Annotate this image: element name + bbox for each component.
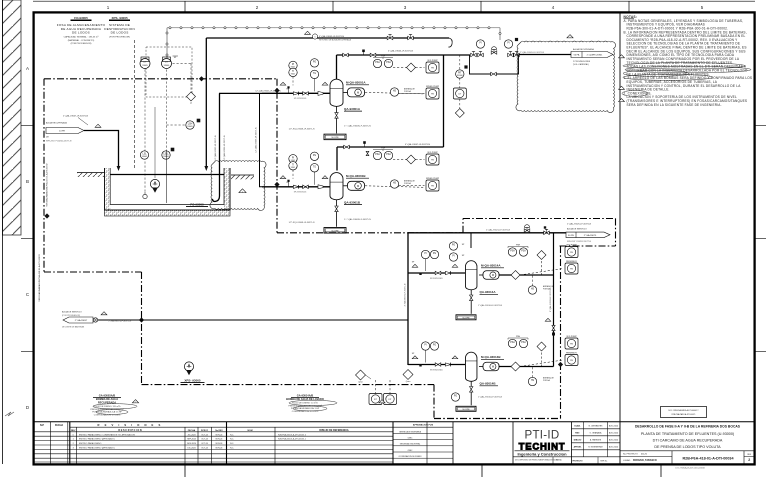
svg-text:ELAB.: ELAB. bbox=[575, 424, 581, 427]
panel box 2 unit B bbox=[426, 180, 439, 191]
service line valves bbox=[524, 229, 530, 232]
black dot junction QA-93014B bbox=[419, 364, 421, 366]
battery limit bottom horizontal bbox=[142, 384, 435, 386]
svg-text:PI: PI bbox=[507, 43, 510, 45]
svg-text:4"-QAL-93006-LF-30371-N: 4"-QAL-93006-LF-30371-N bbox=[388, 50, 413, 53]
cloud around pit right bbox=[210, 161, 266, 211]
instrument dashed line left bbox=[144, 70, 146, 193]
svg-text:Qmin: Qmin bbox=[406, 381, 411, 383]
panel boxes QA-93014B bbox=[565, 338, 578, 349]
svg-text:GERENCIA DE INGENIERIA: GERENCIA DE INGENIERIA bbox=[399, 430, 422, 433]
triangle in cloud bbox=[239, 189, 246, 193]
svg-text:N.C.: N.C. bbox=[230, 439, 234, 441]
slope funnel QA-93014A bbox=[456, 315, 476, 320]
black square junction B bbox=[363, 141, 366, 144]
small valve B bbox=[366, 151, 369, 155]
svg-text:HS: HS bbox=[531, 380, 535, 382]
instrument TI QA-93001A bbox=[289, 68, 297, 76]
lavado connection circle bbox=[93, 318, 97, 322]
svg-text:ARRANQUE: ARRANQUE bbox=[404, 88, 415, 91]
vent triangle QA-93014B bbox=[452, 356, 458, 359]
manifold gate valve 3 bbox=[508, 53, 514, 56]
service line drop bbox=[470, 233, 472, 248]
discharge line QA-93014B bbox=[499, 366, 554, 368]
feed line to QA-93014B bbox=[408, 364, 465, 366]
manifold gate valve 2 bbox=[478, 53, 484, 56]
battery limit right vertical upper bbox=[276, 79, 278, 233]
svg-text:REV.: REV. bbox=[575, 432, 580, 434]
svg-text:PI: PI bbox=[479, 43, 482, 45]
svg-text:COORDINACION DE DISENO: COORDINACION DE DISENO bbox=[398, 455, 422, 458]
svg-text:OCT-24: OCT-24 bbox=[201, 443, 208, 445]
instrument PI QA-93001A bbox=[289, 61, 297, 69]
pump motor QA-93001B bbox=[348, 181, 365, 190]
arranque circle QA-93014B bbox=[528, 377, 536, 385]
svg-text:M-QA-93014B: M-QA-93014B bbox=[481, 355, 501, 359]
vent triangle QA-93001A left bbox=[280, 82, 286, 85]
revision table header row bbox=[70, 426, 393, 428]
svg-text:AGUA RECUPERADA: AGUA RECUPERADA bbox=[46, 121, 67, 124]
notes panel divider bbox=[619, 12, 621, 422]
gate valve feed QA-93014A bbox=[435, 271, 441, 274]
drain line QA-93001A bbox=[336, 106, 338, 133]
svg-text:R. MONSERRAT: R. MONSERRAT bbox=[588, 445, 603, 448]
note marker triangle B bbox=[619, 86, 625, 89]
svg-text:FLUJO DE DISENO: 10 m³/h: FLUJO DE DISENO: 10 m³/h bbox=[292, 402, 318, 405]
revision table frame bbox=[49, 422, 51, 464]
sheet outer edge line bbox=[2, 0, 4, 464]
svg-text:GA-93014A/B: GA-93014A/B bbox=[297, 394, 314, 398]
check valve feed QA-93014B bbox=[445, 363, 450, 366]
manifold gate valve 1 bbox=[471, 53, 477, 56]
instrument LSL left bbox=[140, 151, 148, 159]
vessel QA-93014A bbox=[465, 261, 477, 290]
note highlight oval 5 bbox=[622, 91, 648, 97]
note triangle inlet bbox=[95, 124, 101, 127]
instrument PG QA-93014A bbox=[430, 250, 438, 258]
zone tick right bbox=[755, 125, 767, 127]
black dot junction QA-93014A bbox=[419, 273, 421, 275]
instrument PI right bbox=[504, 40, 512, 48]
svg-text:DE LODOS: DE LODOS bbox=[72, 30, 90, 34]
panel box VFD unit A bbox=[426, 62, 439, 73]
title lower row bbox=[620, 450, 755, 452]
battery junction diamond 2 bbox=[274, 88, 279, 93]
discharge header B bbox=[337, 146, 444, 148]
svg-text:Qmin: Qmin bbox=[358, 382, 363, 384]
battery limit upper horizontal bbox=[44, 78, 277, 80]
return header line bbox=[206, 37, 449, 39]
title text box bbox=[619, 422, 621, 464]
svg-text:PG: PG bbox=[433, 345, 437, 347]
feed line to QA-93001A bbox=[262, 92, 330, 94]
instrument TG QA-93001B bbox=[310, 164, 318, 172]
svg-text:AGUA RECUPERADA: AGUA RECUPERADA bbox=[573, 48, 594, 51]
vessel QA-93001A bbox=[330, 79, 343, 106]
svg-text:14 PE: 14 PE bbox=[59, 131, 65, 133]
note triangle header bbox=[305, 31, 311, 34]
instrument PG QA-93014B bbox=[430, 342, 438, 350]
zone tick left bbox=[21, 125, 34, 127]
svg-text:SLOPE: SLOPE bbox=[331, 137, 339, 139]
svg-text:(MATERIAL : CONCRETO): (MATERIAL : CONCRETO) bbox=[68, 39, 95, 42]
instrument LG QA-93014A bbox=[421, 250, 429, 258]
instrument dashed line right bbox=[166, 70, 168, 151]
svg-text:PG: PG bbox=[454, 396, 458, 398]
svg-text:EMITIDO PARA DISENO (APROBADO): EMITIDO PARA DISENO (APROBADO) bbox=[79, 438, 115, 441]
svg-text:AGO-2024: AGO-2024 bbox=[609, 438, 618, 441]
svg-text:2"-QAL-93025-LF-30371-N: 2"-QAL-93025-LF-30371-N bbox=[567, 223, 592, 226]
svg-text:APROB.: APROB. bbox=[574, 445, 582, 448]
svg-text:PG: PG bbox=[313, 155, 317, 157]
svg-text:SERA DEFINIDA EN LA SIGUIENTE: SERA DEFINIDA EN LA SIGUIENTE FASE DE IN… bbox=[627, 103, 722, 107]
boxed circles bottom bbox=[369, 394, 382, 405]
svg-text:2: 2 bbox=[135, 402, 136, 404]
svg-text:2"-SA-93057-LF-30371-N: 2"-SA-93057-LF-30371-N bbox=[404, 283, 407, 306]
svg-text:PG: PG bbox=[452, 245, 456, 247]
header end hook bbox=[448, 38, 452, 47]
suction header horizontal bbox=[219, 92, 330, 94]
instrument PI left bbox=[476, 40, 484, 48]
svg-text:PURGA: PURGA bbox=[543, 379, 550, 382]
svg-text:VFD PUMP: VFD PUMP bbox=[427, 152, 438, 154]
svg-text:A: A bbox=[26, 66, 29, 71]
svg-text:XPS- 93005: XPS- 93005 bbox=[184, 379, 201, 383]
svg-text:PSH: PSH bbox=[516, 245, 521, 247]
svg-text:OCT-24: OCT-24 bbox=[201, 439, 208, 441]
svg-text:PROYECTO: PROYECTO bbox=[572, 460, 583, 462]
instrument TG QA-93001A bbox=[310, 70, 318, 78]
svg-text:PSA: PSA bbox=[386, 153, 391, 156]
svg-text:R E V I S I O N E S: R E V I S I O N E S bbox=[98, 423, 163, 427]
gate valve feed QA-93014B bbox=[435, 363, 441, 366]
lower discharge collector bbox=[553, 233, 555, 367]
svg-text:HS: HS bbox=[393, 91, 397, 93]
svg-text:2"-SA-93057-LF-30371-N: 2"-SA-93057-LF-30371-N bbox=[109, 320, 132, 323]
svg-text:VER DIAGRAMA R2B-P6A-418-01-A-: VER DIAGRAMA R2B-P6A-418-01-A-DTI-00032 bbox=[46, 163, 49, 207]
VFD dashed link QA-93001B bbox=[365, 186, 424, 188]
ground hatch left of pit bbox=[77, 172, 105, 174]
zone tick top 1 bbox=[184, 1, 186, 12]
svg-text:FECHA: FECHA bbox=[55, 424, 64, 427]
svg-text:N.P: N.P bbox=[40, 424, 44, 427]
battery limit right vertical lower bbox=[560, 246, 562, 419]
instrument dashed links QA-93014A bbox=[520, 269, 563, 276]
svg-text:OCT-24: OCT-24 bbox=[201, 448, 208, 450]
logo box PTI-ID TECHINT bbox=[512, 422, 514, 464]
svg-text:2 PROVEEDORES: 2 PROVEEDORES bbox=[573, 61, 591, 63]
discharge collector riser bbox=[443, 55, 445, 147]
svg-text:M: M bbox=[357, 91, 359, 95]
svg-text:VFD PUMP: VFD PUMP bbox=[427, 60, 438, 62]
pit level riser instruments bbox=[459, 55, 461, 70]
svg-text:SPEED PUMP: SPEED PUMP bbox=[426, 178, 440, 180]
note marker triangle C bbox=[619, 99, 625, 102]
svg-text:QA-93001B: QA-93001B bbox=[344, 200, 361, 204]
svg-text:DESARROLLO DE FASE II-A Y II-B: DESARROLLO DE FASE II-A Y II-B DE LA REF… bbox=[635, 424, 741, 428]
svg-text:PSA: PSA bbox=[386, 61, 391, 64]
svg-text:1: 1 bbox=[283, 178, 284, 180]
svg-text:1: 1 bbox=[283, 84, 284, 86]
svg-text:1: 1 bbox=[325, 178, 326, 180]
svg-text:M: M bbox=[357, 184, 359, 188]
header valve 2 bbox=[408, 36, 414, 39]
svg-text:PI: PI bbox=[424, 345, 427, 347]
svg-text:PSA: PSA bbox=[375, 61, 380, 64]
svg-text:1: 1 bbox=[104, 314, 105, 316]
discharge header A bbox=[337, 54, 471, 56]
svg-text:41120: 41120 bbox=[641, 454, 648, 456]
svg-text:SLOPE: SLOPE bbox=[462, 409, 470, 411]
vent triangle QA-93001A right bbox=[322, 82, 328, 85]
drain line QA-93014B bbox=[470, 381, 472, 405]
discharge valve A2 bbox=[370, 53, 376, 56]
svg-text:QA-93014A: QA-93014A bbox=[480, 290, 497, 294]
svg-text:M: M bbox=[492, 273, 494, 277]
cloud big upper right bbox=[516, 41, 616, 112]
svg-text:LUGAR:: LUGAR: bbox=[623, 459, 631, 462]
zone tick top 4 bbox=[628, 1, 630, 12]
instrument LIT seal pot left bbox=[140, 59, 150, 69]
svg-text:VFD PUMP: VFD PUMP bbox=[566, 244, 577, 246]
battery junction diamond 1 bbox=[199, 76, 204, 81]
collector valve cluster bbox=[552, 325, 555, 330]
drain line QA-93014A bbox=[470, 290, 472, 314]
svg-text:4"-QAL-93009-LF-30371-N: 4"-QAL-93009-LF-30371-N bbox=[319, 35, 344, 38]
discharge riser unit A bbox=[336, 55, 338, 79]
svg-text:1: 1 bbox=[415, 358, 416, 360]
vent triangle QA-93001B left bbox=[280, 176, 286, 179]
svg-text:2"-SA-93075: 2"-SA-93075 bbox=[584, 234, 597, 237]
instrument TI QA-93001B bbox=[289, 162, 297, 170]
svg-text:QA-93014B: QA-93014B bbox=[480, 382, 497, 386]
small scribble left bbox=[5, 412, 14, 416]
svg-text:93005: 93005 bbox=[142, 65, 148, 67]
svg-text:FLUJO DE DISENO: 120 m³/h: FLUJO DE DISENO: 120 m³/h bbox=[94, 405, 121, 408]
svg-text:N.C.: N.C. bbox=[230, 434, 234, 436]
drain line QA-93001B bbox=[336, 200, 338, 227]
return header drop to pit bbox=[205, 38, 207, 167]
vessel QA-93001B bbox=[330, 173, 343, 200]
svg-text:12"-QAL-93005-LF-30371-N: 12"-QAL-93005-LF-30371-N bbox=[214, 135, 217, 161]
drain valve QA-93001B bbox=[335, 206, 338, 212]
svg-text:PTI-ID: PTI-ID bbox=[524, 430, 559, 442]
svg-text:SPE-XXX YY-BZZZ-DDTT-N: SPE-XXX YY-BZZZ-DDTT-N bbox=[46, 140, 72, 142]
svg-text:VFD PUMP: VFD PUMP bbox=[566, 336, 577, 338]
title block top line bbox=[34, 421, 755, 423]
PSA pair QA-93014B bbox=[508, 339, 516, 347]
svg-text:PSA: PSA bbox=[521, 341, 526, 344]
gate valve feed QA-93001A bbox=[303, 92, 309, 95]
svg-text:N.C.: N.C. bbox=[230, 443, 234, 445]
svg-text:EMITIDO PARA DISENO: EMITIDO PARA DISENO bbox=[79, 442, 102, 445]
check valve feed QA-93001A bbox=[293, 92, 298, 95]
instrument PG QA-93001A bbox=[310, 59, 318, 67]
svg-text:AGO-2024: AGO-2024 bbox=[609, 424, 618, 427]
flow diamond QA-93014B bbox=[511, 362, 520, 371]
svg-text:PURGA: PURGA bbox=[404, 90, 411, 93]
svg-text:1: 1 bbox=[98, 126, 99, 128]
svg-text:PSA: PSA bbox=[375, 153, 380, 156]
svg-text:2"-QURF-20901: 2"-QURF-20901 bbox=[587, 55, 604, 57]
svg-text:2: 2 bbox=[382, 402, 383, 404]
svg-text:ARRANQUE: ARRANQUE bbox=[404, 180, 415, 183]
svg-text:PSA: PSA bbox=[510, 250, 515, 253]
svg-text:N. CERVANTES: N. CERVANTES bbox=[589, 424, 604, 427]
svg-text:DIC-2024: DIC-2024 bbox=[187, 448, 195, 450]
svg-text:R2B-P6A-PAXX-A-DTI-00075: R2B-P6A-PAXX-A-DTI-00075 bbox=[672, 413, 696, 416]
svg-text:1/2"-RQL-93008-LF-30371-N: 1/2"-RQL-93008-LF-30371-N bbox=[289, 128, 315, 130]
svg-text:JUL-2024: JUL-2024 bbox=[187, 434, 195, 436]
pit concrete texture bbox=[105, 210, 231, 216]
battery junction diamond 6 bbox=[558, 362, 563, 367]
slope funnel QA-93001A bbox=[324, 134, 346, 140]
note highlight oval 1 bbox=[623, 63, 745, 69]
panel box VFD unit B bbox=[426, 154, 439, 165]
triangle above cloud bbox=[567, 35, 573, 38]
svg-text:NOV-24: NOV-24 bbox=[216, 434, 223, 436]
svg-text:(POR PROVEEDOR): (POR PROVEEDOR) bbox=[109, 37, 130, 39]
svg-text:50 FA: 50 FA bbox=[574, 54, 580, 57]
svg-text:DE LODOS: DE LODOS bbox=[111, 30, 129, 34]
svg-text:SPE-XXX YY-BZZZ-DDTT-N: SPE-XXX YY-BZZZ-DDTT-N bbox=[567, 241, 592, 243]
svg-text:2"-QAL-93007-LF-30371-N: 2"-QAL-93007-LF-30371-N bbox=[63, 115, 88, 118]
interlock diamond riser bbox=[455, 109, 464, 118]
svg-text:93006: 93006 bbox=[457, 75, 463, 77]
svg-text:1"-QAL-93016-LF-30371-N: 1"-QAL-93016-LF-30371-N bbox=[478, 304, 503, 307]
dashed instrument box bbox=[146, 47, 192, 97]
svg-text:N.C.: N.C. bbox=[230, 448, 234, 450]
revision table rows bbox=[34, 431, 393, 433]
svg-text:TG: TG bbox=[313, 73, 316, 75]
PSA pair QA-93014A bbox=[508, 248, 516, 256]
svg-text:QA-93001A: QA-93001A bbox=[344, 107, 361, 111]
pit suction pipe bbox=[213, 93, 220, 201]
note highlight oval 3 bbox=[623, 70, 689, 76]
svg-text:1: 1 bbox=[455, 358, 456, 360]
svg-text:DE LIMITE DE BATERIAS: DE LIMITE DE BATERIAS bbox=[62, 326, 85, 329]
svg-text:HS: HS bbox=[393, 183, 397, 185]
svg-text:2: 2 bbox=[570, 37, 571, 39]
interlock diamond unit B bbox=[407, 155, 416, 164]
check valve feed QA-93001B bbox=[293, 185, 298, 188]
svg-text:A. PAREDES: A. PAREDES bbox=[590, 438, 602, 441]
svg-text:93005: 93005 bbox=[187, 126, 193, 128]
black square junction A bbox=[362, 50, 365, 53]
svg-text:OCT-24: OCT-24 bbox=[201, 434, 208, 436]
svg-text:NOV-24: NOV-24 bbox=[216, 439, 223, 441]
svg-text:GA-93003A/B: GA-93003A/B bbox=[99, 394, 116, 398]
svg-text:SLOPE: SLOPE bbox=[462, 318, 470, 320]
svg-text:1"-QAL-93016-LF-30371-N: 1"-QAL-93016-LF-30371-N bbox=[478, 395, 503, 398]
instrument dashed links QA-93014B bbox=[520, 360, 563, 367]
svg-text:CNEC: CNEC bbox=[408, 438, 414, 440]
svg-text:1: 1 bbox=[325, 84, 326, 86]
reference document box bbox=[661, 407, 707, 418]
VFD dashed link QA-93001A bbox=[365, 92, 424, 94]
svg-text:PSH: PSH bbox=[381, 148, 386, 150]
HS circle unit A bbox=[390, 88, 398, 96]
note marker triangle A bbox=[619, 55, 625, 58]
reducer QA-93001B bbox=[318, 185, 323, 189]
approbation column bbox=[426, 422, 428, 464]
level pin XPS-93005 bbox=[184, 362, 193, 371]
HS circle unit B bbox=[390, 180, 398, 188]
interlock diamond QA-93014B bbox=[537, 342, 546, 351]
svg-text:CAPACIDAD NOMINAL : 183.43 m³: CAPACIDAD NOMINAL : 183.43 m³ bbox=[64, 36, 99, 39]
svg-text:PERMISIVO: PERMISIVO bbox=[566, 352, 578, 354]
black square manifold 2 bbox=[464, 65, 467, 68]
svg-text:AGUA DE SERVICIO: AGUA DE SERVICIO bbox=[62, 311, 82, 314]
svg-text:PI: PI bbox=[452, 256, 455, 258]
branch down to unit B bbox=[260, 93, 263, 186]
svg-text:12"-QAL-93005-LF-30371-N: 12"-QAL-93005-LF-30371-N bbox=[255, 90, 281, 93]
svg-text:SP-93XX-9301: SP-93XX-9301 bbox=[430, 278, 443, 280]
drain valve QA-93001A bbox=[335, 113, 338, 119]
service water line bbox=[471, 232, 568, 234]
svg-text:SP-93XX-9301: SP-93XX-9301 bbox=[430, 370, 443, 372]
pump motor QA-93001A bbox=[348, 88, 365, 97]
svg-text:R2B-P6A-418-01-A-DTI-00034: R2B-P6A-418-01-A-DTI-00034 bbox=[682, 457, 734, 461]
black square junction QA-93001B bbox=[287, 180, 289, 182]
svg-text:TG: TG bbox=[313, 166, 316, 168]
svg-text:SP-9378-93005: SP-9378-93005 bbox=[294, 98, 307, 100]
PG circle bottom right bbox=[451, 393, 459, 401]
instrument stilling line in pit bbox=[166, 150, 168, 203]
check valve feed QA-93014A bbox=[445, 271, 450, 274]
feed line to QA-93001B bbox=[262, 186, 330, 188]
svg-text:R2B-P6A-418-01-A-DTI-00034_1: R2B-P6A-418-01-A-DTI-00034_1 bbox=[278, 438, 306, 441]
PSA pair unit B bbox=[373, 151, 381, 159]
bypass valve bbox=[491, 72, 497, 75]
svg-text:50 PE: 50 PE bbox=[568, 235, 575, 237]
battery limit jog left-bottom bbox=[44, 271, 142, 273]
svg-text:SPEED PUMP: SPEED PUMP bbox=[426, 86, 440, 88]
instrument PG service bbox=[449, 242, 457, 250]
black square manifold bbox=[515, 38, 518, 41]
svg-text:2"-QAL-93022-LF-30371-N: 2"-QAL-93022-LF-30371-N bbox=[549, 287, 552, 312]
interlock diamond unit A bbox=[407, 63, 416, 72]
XPS future connection dashed line bbox=[134, 40, 136, 168]
instrument LSH with square bbox=[186, 121, 194, 129]
zone tick top 3 bbox=[480, 1, 482, 12]
svg-text:REF. No.: REF. No. bbox=[600, 460, 608, 462]
svg-text:ARRANQUE: ARRANQUE bbox=[543, 377, 554, 380]
svg-text:M-QA-93001B: M-QA-93001B bbox=[346, 174, 366, 178]
svg-text:PG: PG bbox=[433, 253, 437, 255]
svg-text:PERMISIVO: PERMISIVO bbox=[566, 261, 578, 263]
vessel QA-93014B bbox=[465, 352, 477, 381]
software signal line top bbox=[167, 27, 500, 29]
battery limit mid horizontal bbox=[277, 232, 463, 234]
interlock diamond bottom 1 bbox=[356, 370, 366, 380]
panel boxes QA-93014A bbox=[565, 247, 578, 258]
panel box 2 unit A bbox=[426, 88, 439, 99]
pump motor QA-93014A bbox=[483, 271, 499, 280]
interlock diamond top-left bbox=[187, 92, 196, 101]
vent triangle QA-93014A bbox=[452, 264, 458, 267]
flow diamond QA-93014A bbox=[511, 271, 520, 280]
discharge riser unit B bbox=[336, 147, 338, 171]
float switch bbox=[143, 194, 147, 198]
svg-text:CONFIGURACION: 2 x 100%: CONFIGURACION: 2 x 100% bbox=[292, 410, 319, 413]
note highlight oval 2 bbox=[625, 66, 751, 72]
svg-text:HS: HS bbox=[531, 289, 535, 291]
lavado supply line bbox=[93, 319, 408, 321]
ground hatch in cloud bbox=[231, 174, 254, 176]
svg-text:2"-SA-93057: 2"-SA-93057 bbox=[75, 319, 88, 322]
battery junction diamond 3 bbox=[274, 182, 279, 187]
